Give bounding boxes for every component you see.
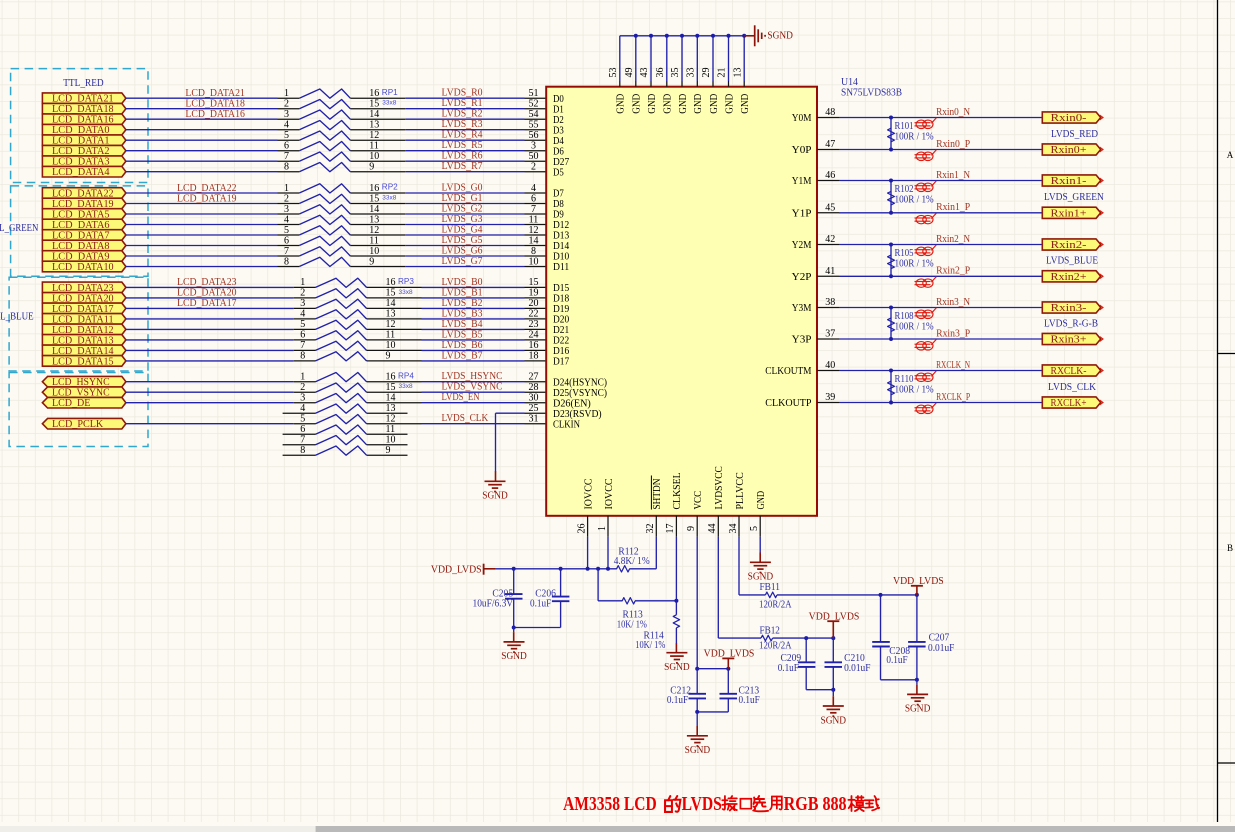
RP1 pins 5/12 (278, 139, 300, 141)
svg-text:11: 11 (369, 235, 379, 246)
U14 bottom pin 26 IOVCC (587, 516, 589, 537)
U14 top pin 29 GND (712, 81, 714, 87)
wire LCD_DE (126, 402, 294, 404)
svg-text:17: 17 (665, 524, 676, 534)
svg-text:D15: D15 (553, 283, 569, 294)
wire LCD_DATA15 (126, 360, 294, 362)
svg-text:LVDS_R1: LVDS_R1 (442, 98, 483, 109)
svg-text:SGND: SGND (767, 31, 793, 42)
svg-text:3: 3 (284, 204, 289, 215)
GND bus wire at top (620, 35, 744, 37)
wire Rxin1_P (839, 212, 1042, 214)
svg-text:14: 14 (529, 235, 539, 246)
wire pin9 down (696, 537, 698, 669)
svg-text:D24(HSYNC): D24(HSYNC) (553, 377, 607, 388)
svg-text:LVDS_EN: LVDS_EN (442, 392, 481, 403)
svg-text:PLLVCC: PLLVCC (735, 472, 746, 509)
svg-text:16: 16 (386, 277, 396, 288)
svg-text:13: 13 (369, 120, 379, 131)
svg-text:D2: D2 (553, 115, 564, 126)
svg-text:1: 1 (284, 88, 289, 99)
U14 top pin 43 GND (650, 81, 652, 87)
svg-text:6: 6 (300, 424, 305, 435)
svg-text:11: 11 (386, 424, 396, 435)
port LCD_VSYNC (42, 387, 126, 398)
svg-text:D19: D19 (553, 304, 569, 315)
wire LVDS_CLK (422, 423, 525, 425)
wire LVDS_G7 (405, 266, 524, 268)
wire LCD_DATA11 (126, 318, 294, 320)
wire LVDS_B2 (422, 307, 525, 309)
svg-text:LCD_DATA21: LCD_DATA21 (185, 88, 245, 99)
U14 pin 18 (525, 360, 547, 362)
svg-text:D4: D4 (553, 136, 564, 147)
svg-text:LVDS_G7: LVDS_G7 (442, 256, 483, 267)
svg-text:4: 4 (284, 214, 289, 225)
wire LCD_DATA20 (126, 297, 294, 299)
RP4 pins 8/9 (283, 454, 316, 456)
port LCD_HSYNC (42, 376, 126, 387)
wire LCD_DATA1 (126, 139, 278, 141)
wire LVDS_B7 (422, 360, 525, 362)
resistor R105 100R 1% (890, 245, 892, 277)
RP2 pins 7/10 (278, 255, 300, 257)
svg-text:LCD_DATA16: LCD_DATA16 (185, 109, 245, 120)
svg-text:49: 49 (624, 68, 635, 78)
svg-text:120R/2A: 120R/2A (759, 599, 792, 610)
wire LCD_DATA19 (126, 203, 278, 205)
svg-text:Rxin3_P: Rxin3_P (936, 328, 970, 339)
svg-text:D3: D3 (553, 125, 564, 136)
svg-text:15: 15 (386, 382, 396, 393)
svg-text:VDD_LVDS: VDD_LVDS (431, 564, 482, 575)
port LCD_DATA23 (42, 282, 126, 293)
wire LCD_PCLK (126, 423, 294, 425)
svg-text:19: 19 (529, 288, 539, 299)
svg-text:7: 7 (531, 204, 536, 215)
svg-text:GND: GND (724, 94, 735, 114)
wire pin17 down (675, 537, 677, 601)
svg-text:24: 24 (529, 330, 539, 341)
wire Rxin0_P (839, 149, 1042, 151)
U14 pin 12 (525, 234, 547, 236)
svg-text:RXCLK_P: RXCLK_P (936, 392, 970, 403)
svg-text:Rxin0_P: Rxin0_P (936, 139, 970, 150)
title glyph yong (770, 796, 782, 809)
svg-text:TTL_GREEN: TTL_GREEN (0, 222, 38, 234)
RP2 pins 5/12 (278, 234, 300, 236)
svg-text:Rxin0-: Rxin0- (1051, 113, 1087, 124)
svg-text:10K/ 1%: 10K/ 1% (617, 620, 647, 631)
svg-text:LCD_DATA15: LCD_DATA15 (52, 356, 114, 367)
svg-text:Rxin3-: Rxin3- (1051, 303, 1087, 314)
svg-text:GND: GND (693, 94, 704, 114)
svg-text:14: 14 (369, 204, 379, 215)
svg-text:D9: D9 (553, 210, 564, 221)
wire LVDS_G3 (405, 224, 524, 226)
svg-text:LVDS_R2: LVDS_R2 (442, 109, 483, 120)
capacitor C212 0.1uF (696, 669, 698, 694)
port Rxin2+ (1042, 271, 1100, 282)
U14 pin 11 (525, 224, 547, 226)
resistor R110 100R 1% (890, 371, 892, 403)
wire LVDS_B1 (422, 297, 525, 299)
U14 pin 2 (525, 171, 547, 173)
svg-text:CLKOUTP: CLKOUTP (765, 398, 812, 409)
port LCD_DATA21 (42, 93, 126, 104)
RP2 pins 6/11 (278, 245, 300, 247)
svg-text:29: 29 (701, 68, 712, 78)
svg-text:Rxin3+: Rxin3+ (1051, 335, 1087, 346)
capacitor C210 0.01uF (832, 638, 834, 662)
U14 pin 6 (525, 203, 547, 205)
diff pair marker Rxin1_P (915, 213, 937, 224)
port Rxin3+ (1042, 333, 1100, 344)
svg-text:LVDS_RED: LVDS_RED (1051, 129, 1098, 140)
svg-text:0.01uF: 0.01uF (844, 663, 871, 674)
port LCD_DATA9 (42, 251, 126, 262)
svg-text:23: 23 (529, 319, 539, 330)
svg-text:LCD_DE: LCD_DE (52, 398, 90, 409)
svg-text:LVDS_B3: LVDS_B3 (442, 308, 483, 319)
ground SGND under C210 (823, 705, 844, 707)
svg-text:0.01uF: 0.01uF (928, 643, 955, 654)
svg-text:LVDS_CLK: LVDS_CLK (1048, 382, 1096, 393)
svg-text:Rxin2+: Rxin2+ (1051, 272, 1087, 283)
svg-text:37: 37 (825, 329, 835, 340)
svg-text:LVDS_GREEN: LVDS_GREEN (1044, 192, 1104, 203)
wire LVDS_G1 (405, 203, 524, 205)
wire LVDS_G0 (405, 192, 524, 194)
title glyph mo (848, 796, 863, 811)
svg-text:120R/2A: 120R/2A (759, 641, 792, 652)
wire LCD_DATA6 (126, 224, 278, 226)
wire LVDS_R3 (405, 129, 524, 131)
IC U14 body SN75LVDS83B (546, 87, 817, 516)
title glyph jie (722, 796, 737, 811)
svg-text:D20: D20 (553, 315, 569, 326)
svg-text:6: 6 (300, 330, 305, 341)
title glyph kou (740, 799, 751, 809)
svg-text:0.1uF: 0.1uF (739, 695, 760, 706)
U14 bottom pin 34 PLLVCC (738, 516, 740, 537)
svg-text:D14: D14 (553, 241, 569, 252)
svg-text:8: 8 (284, 256, 289, 267)
wire Rxin2_N (839, 244, 1042, 246)
svg-text:LVDS_G4: LVDS_G4 (442, 224, 483, 235)
U14 pin 8 (525, 255, 547, 257)
svg-text:LVDS_B6: LVDS_B6 (442, 340, 483, 351)
U14 top pin 36 GND (666, 81, 668, 87)
svg-text:11: 11 (386, 330, 396, 341)
svg-text:LCD_DATA18: LCD_DATA18 (185, 99, 245, 110)
svg-text:GND: GND (616, 94, 627, 114)
svg-text:7: 7 (300, 435, 305, 446)
title glyph de (665, 796, 680, 812)
svg-text:SGND: SGND (748, 572, 774, 583)
svg-text:14: 14 (386, 393, 396, 404)
svg-text:20: 20 (529, 298, 539, 309)
port LCD_DATA22 (42, 188, 126, 199)
svg-text:RP4: RP4 (398, 371, 414, 380)
svg-text:9: 9 (369, 256, 374, 267)
RP4 pins 7/10 (283, 444, 316, 446)
svg-text:33x8: 33x8 (382, 100, 396, 107)
svg-text:Rxin3_N: Rxin3_N (936, 297, 971, 308)
svg-text:13: 13 (369, 214, 379, 225)
svg-text:LVDS_B5: LVDS_B5 (442, 329, 483, 340)
svg-text:8: 8 (300, 351, 305, 362)
U14 bottom pin 1 IOVCC (607, 516, 609, 537)
svg-text:LVDS_HSYNC: LVDS_HSYNC (442, 371, 503, 382)
zone divider B/C (1218, 762, 1235, 764)
capacitor C206 0.1uF (560, 569, 562, 597)
dashed box sync group (9, 373, 148, 447)
RP3 pins 5/12 (294, 328, 316, 330)
svg-text:LVDS_G6: LVDS_G6 (442, 245, 483, 256)
svg-text:LVDS_G2: LVDS_G2 (442, 203, 483, 214)
svg-text:LVDS_R4: LVDS_R4 (442, 130, 483, 141)
svg-text:Y0M: Y0M (792, 113, 812, 124)
svg-text:LCD_DATA23: LCD_DATA23 (177, 277, 237, 288)
wire LVDS_R0 (405, 97, 524, 99)
svg-text:CLKOUTM: CLKOUTM (765, 366, 811, 377)
RP4 pins 4/13 (283, 412, 316, 414)
port LCD_DATA20 (42, 293, 126, 304)
svg-text:IOVCC: IOVCC (604, 478, 615, 509)
svg-text:14: 14 (369, 109, 379, 120)
wire Rxin0_N (839, 117, 1042, 119)
ferrite bead FB12 120R/2A (717, 537, 719, 638)
RP2 pins 1/16 (278, 192, 300, 194)
svg-text:25: 25 (529, 403, 539, 414)
RP3 pins 7/10 (294, 349, 316, 351)
svg-text:27: 27 (529, 372, 539, 383)
svg-text:FB11: FB11 (760, 582, 780, 593)
svg-text:10: 10 (369, 246, 379, 257)
svg-text:Y2M: Y2M (792, 240, 812, 251)
svg-text:4: 4 (284, 120, 289, 131)
wire pin1 down (607, 537, 609, 569)
U14 bottom pin 17 CLKSEL (675, 516, 677, 537)
svg-text:6: 6 (284, 141, 289, 152)
svg-text:LCD_PCLK: LCD_PCLK (52, 419, 104, 430)
U14 pin 30 (525, 402, 547, 404)
zone divider A/B (1218, 353, 1235, 355)
svg-text:LVDS_R0: LVDS_R0 (442, 88, 483, 99)
svg-text:12: 12 (369, 225, 379, 236)
svg-text:D10: D10 (553, 252, 569, 263)
title glyph xuan (754, 796, 769, 811)
svg-text:D5: D5 (553, 167, 564, 178)
svg-text:Y2P: Y2P (792, 272, 812, 283)
port LCD_DATA15 (42, 356, 126, 367)
svg-text:15: 15 (529, 277, 539, 288)
port LCD_DATA16 (42, 114, 126, 125)
svg-text:55: 55 (529, 120, 539, 131)
svg-text:100R / 1%: 100R / 1% (895, 194, 935, 205)
svg-text:13: 13 (732, 68, 743, 78)
wire LCD_DATA10 (126, 266, 278, 268)
svg-text:22: 22 (529, 309, 539, 320)
svg-text:52: 52 (529, 99, 539, 110)
wire LVDS_G2 (405, 213, 524, 215)
capacitor C205 10uF/6.3V (513, 569, 515, 594)
U14 pin 24 (525, 339, 547, 341)
svg-text:AM3358 LCD: AM3358 LCD (563, 793, 657, 815)
svg-text:LVDS_R7: LVDS_R7 (442, 161, 483, 172)
svg-text:4.8K/ 1%: 4.8K/ 1% (614, 556, 650, 567)
svg-text:46: 46 (825, 170, 835, 181)
RP1 pins 4/13 (278, 129, 300, 131)
U14 top pin 35 GND (681, 81, 683, 87)
wire LCD_DATA23 (126, 286, 294, 288)
svg-text:RP3: RP3 (398, 277, 414, 286)
port LCD_DATA11 (42, 314, 126, 325)
svg-text:LVDS_B1: LVDS_B1 (442, 287, 483, 298)
capacitor C208 0.1uF (880, 595, 882, 642)
svg-text:Rxin1-: Rxin1- (1051, 176, 1087, 187)
svg-text:2: 2 (284, 193, 289, 204)
svg-text:2: 2 (300, 288, 305, 299)
diff pair marker Rxin0_N (915, 118, 937, 129)
svg-text:42: 42 (825, 234, 835, 245)
U14 top pin 21 GND (728, 81, 730, 87)
svg-text:2: 2 (284, 99, 289, 110)
port LCD_DATA2 (42, 145, 126, 156)
svg-text:A: A (1227, 150, 1234, 160)
U14 pin 23 (525, 328, 547, 330)
svg-text:D16: D16 (553, 346, 569, 357)
resistor R102 100R 1% (890, 181, 892, 213)
wire LVDS_VSYNC (422, 391, 525, 393)
U14 bottom pin 9 VCC (696, 516, 698, 537)
svg-text:D12: D12 (553, 220, 569, 231)
svg-text:D8: D8 (553, 199, 564, 210)
svg-text:11: 11 (529, 214, 539, 225)
svg-text:D22: D22 (553, 336, 569, 347)
port LCD_DATA17 (42, 303, 126, 314)
RP1 pins 6/11 (278, 150, 300, 152)
svg-text:Rxin2-: Rxin2- (1051, 240, 1087, 251)
wire R113 branch (597, 569, 599, 601)
svg-text:D6: D6 (553, 146, 564, 157)
svg-text:Rxin0+: Rxin0+ (1051, 145, 1087, 156)
svg-text:13: 13 (386, 403, 396, 414)
wire LCD_DATA2 (126, 150, 278, 152)
svg-text:9: 9 (386, 351, 391, 362)
svg-text:2: 2 (531, 162, 536, 173)
svg-text:100R / 1%: 100R / 1% (895, 258, 935, 269)
wire LCD_DATA3 (126, 160, 278, 162)
svg-text:5: 5 (300, 319, 305, 330)
svg-text:RP2: RP2 (382, 183, 398, 192)
svg-text:RXCLK_N: RXCLK_N (936, 360, 970, 371)
svg-text:Y3P: Y3P (792, 335, 812, 346)
svg-text:SGND: SGND (501, 651, 527, 662)
U14 bottom pin 44 LVDSVCC (717, 516, 719, 537)
svg-text:D7: D7 (553, 189, 564, 200)
port LCD_DATA3 (42, 156, 126, 167)
wire pin32 down (655, 537, 657, 569)
svg-text:40: 40 (825, 360, 835, 371)
svg-text:6: 6 (284, 235, 289, 246)
U14 pin 52 (525, 108, 547, 110)
port LCD_DATA4 (42, 166, 126, 177)
svg-text:16: 16 (369, 183, 379, 194)
svg-text:D23(RSVD): D23(RSVD) (553, 409, 602, 420)
svg-text:SN75LVDS83B: SN75LVDS83B (841, 88, 902, 99)
U14 pin 16 (525, 349, 547, 351)
svg-text:SGND: SGND (905, 704, 931, 715)
svg-text:7: 7 (300, 340, 305, 351)
svg-text:10: 10 (369, 151, 379, 162)
svg-text:RP1: RP1 (382, 88, 398, 97)
svg-text:10: 10 (386, 435, 396, 446)
port LCD_DATA8 (42, 240, 126, 251)
svg-text:15: 15 (386, 288, 396, 299)
svg-text:10: 10 (529, 256, 539, 267)
svg-text:Rxin2_P: Rxin2_P (936, 266, 970, 277)
svg-text:LCD_DATA22: LCD_DATA22 (177, 183, 237, 194)
wire LVDS_R6 (405, 160, 524, 162)
svg-text:14: 14 (386, 298, 396, 309)
U14 top pin 33 GND (696, 81, 698, 87)
svg-text:Rxin1_N: Rxin1_N (936, 170, 971, 181)
svg-text:LVDS_G5: LVDS_G5 (442, 235, 483, 246)
port LCD_DATA7 (42, 230, 126, 241)
svg-text:0.1uF: 0.1uF (667, 695, 688, 706)
svg-text:LVDS_B0: LVDS_B0 (442, 277, 483, 288)
svg-text:33x8: 33x8 (399, 289, 413, 296)
svg-text:GND: GND (756, 491, 767, 510)
diff pair marker RXCLK_N (915, 371, 937, 382)
wire LVDS_R7 (405, 171, 524, 173)
svg-text:4: 4 (531, 183, 536, 194)
port LCD_DATA18 (42, 103, 126, 114)
svg-text:LVDS_R3: LVDS_R3 (442, 119, 483, 130)
ground SGND at pin25 (485, 480, 506, 482)
svg-text:100R / 1%: 100R / 1% (895, 131, 935, 142)
U14 pin 27 (525, 381, 547, 383)
SHTDN overline (650, 476, 652, 510)
wire LCD_DATA4 (126, 171, 278, 173)
wire VDD rail (495, 568, 617, 570)
svg-text:4: 4 (300, 403, 305, 414)
wire VCC cap rail (697, 668, 728, 670)
U14 pin 14 (525, 245, 547, 247)
svg-text:47: 47 (825, 139, 835, 150)
port Rxin1- (1042, 175, 1100, 186)
RP1 pins 1/16 (278, 97, 300, 99)
svg-text:SGND: SGND (664, 662, 690, 673)
RP4 pins 5/12 (294, 423, 316, 425)
wire LVDS_B4 (422, 328, 525, 330)
svg-text:3: 3 (531, 141, 536, 152)
svg-text:15: 15 (369, 99, 379, 110)
svg-text:0.1uF: 0.1uF (886, 655, 907, 666)
wire LVDS_HSYNC (422, 381, 525, 383)
svg-text:VCC: VCC (693, 491, 704, 510)
port LCD_DE (42, 397, 126, 408)
svg-text:38: 38 (825, 297, 835, 308)
wire pin25 to ground (496, 412, 525, 414)
diff pair marker RXCLK_P (915, 403, 937, 414)
svg-text:GND: GND (709, 94, 720, 114)
U14 top pin 13 GND (743, 81, 745, 87)
svg-text:D26(EN): D26(EN) (553, 398, 591, 409)
wire LCD_DATA12 (126, 328, 294, 330)
